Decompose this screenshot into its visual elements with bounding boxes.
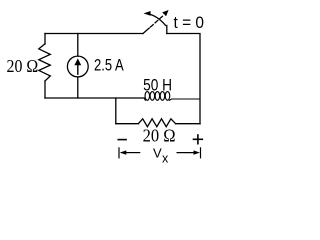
- svg-text:20 Ω: 20 Ω: [7, 56, 39, 76]
- svg-text:2.5 A: 2.5 A: [94, 57, 124, 75]
- svg-text:t = 0: t = 0: [174, 13, 205, 32]
- svg-text:x: x: [162, 152, 169, 166]
- svg-text:50 H: 50 H: [143, 76, 172, 95]
- svg-text:V: V: [153, 145, 162, 160]
- svg-text:20 Ω: 20 Ω: [143, 126, 176, 146]
